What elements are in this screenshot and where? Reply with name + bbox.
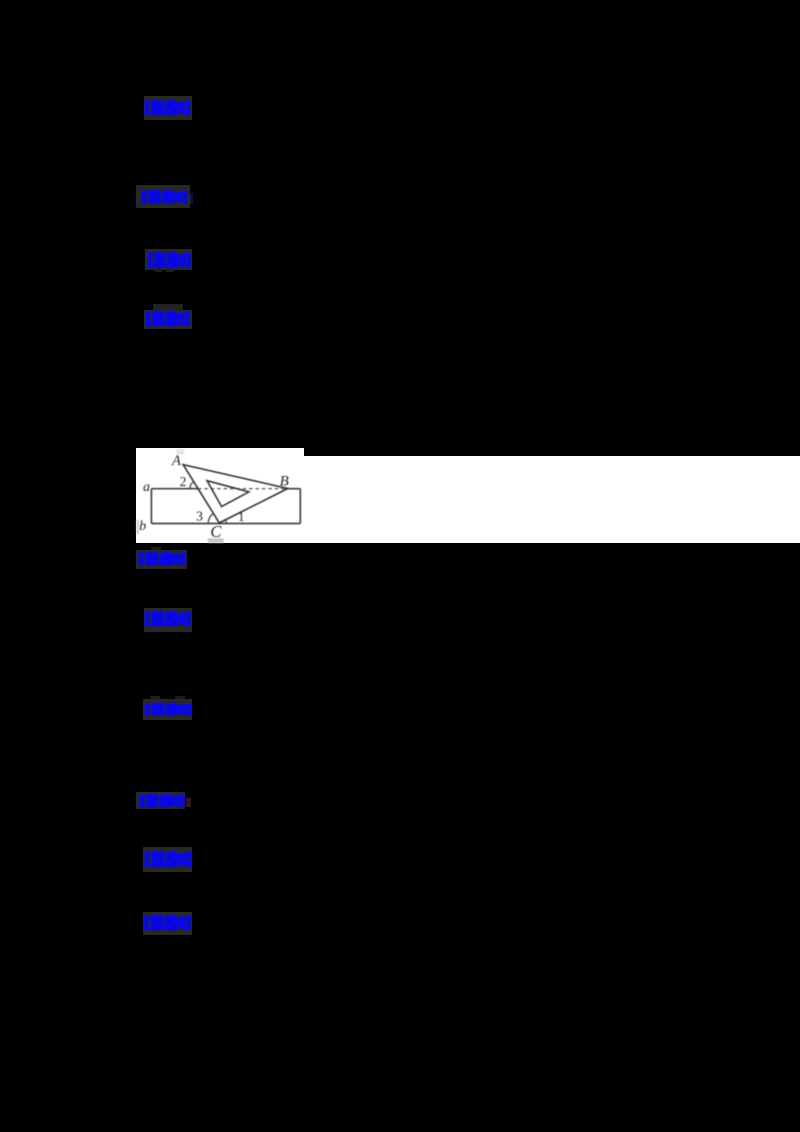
svg-text:A: A bbox=[171, 453, 181, 469]
svg-text:2: 2 bbox=[180, 474, 187, 489]
svg-text:3: 3 bbox=[196, 509, 203, 524]
svg-text:B: B bbox=[280, 473, 289, 489]
svg-text:a: a bbox=[143, 480, 150, 495]
svg-text:1: 1 bbox=[238, 509, 245, 524]
svg-text:b: b bbox=[139, 519, 146, 534]
